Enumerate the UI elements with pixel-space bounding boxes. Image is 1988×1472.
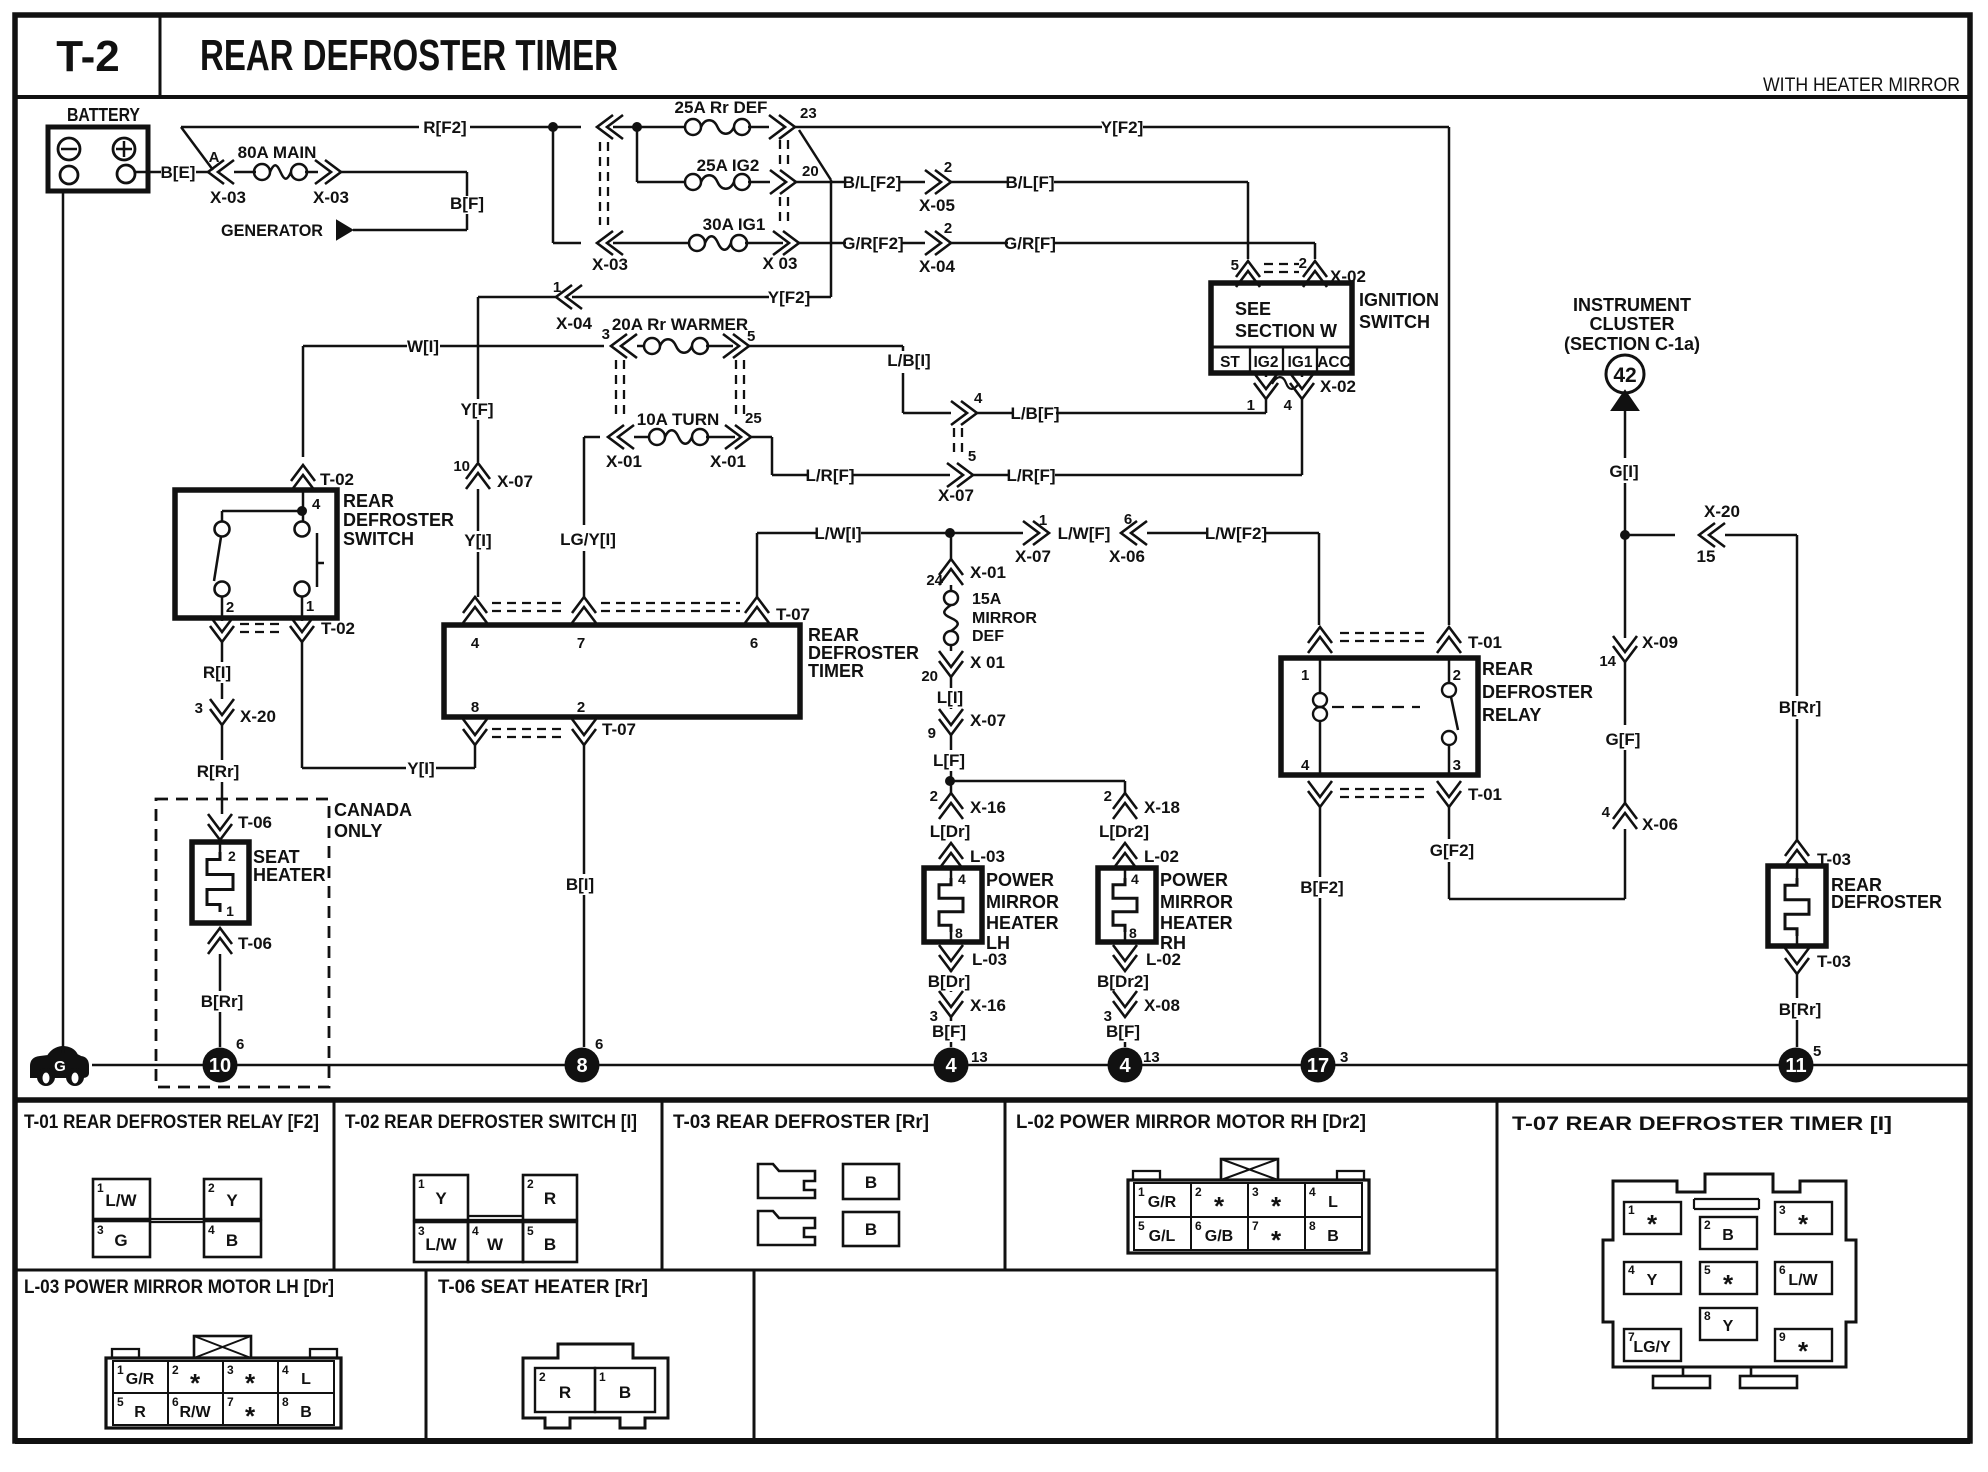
svg-text:B[Rr]: B[Rr] (201, 992, 244, 1011)
svg-text:Y: Y (435, 1189, 447, 1208)
svg-text:G[I]: G[I] (1609, 462, 1638, 481)
svg-text:G/R[F]: G/R[F] (1004, 234, 1056, 253)
svg-text:10A TURN: 10A TURN (637, 410, 720, 429)
svg-text:W[I]: W[I] (407, 337, 439, 356)
connector X 01 pin 20 (921, 645, 1005, 685)
svg-text:DEFROSTER: DEFROSTER (343, 510, 454, 530)
connector X-03 pin 20 (770, 163, 819, 226)
svg-text:X-01: X-01 (970, 563, 1006, 582)
node junction L[F] (945, 776, 955, 786)
svg-text:RELAY: RELAY (1482, 705, 1541, 725)
fuse 10A TURN with connectors X-01 (584, 410, 762, 471)
svg-text:L/W[I]: L/W[I] (814, 524, 861, 543)
svg-text:T-01 REAR DEFROSTER RELAY [F2]: T-01 REAR DEFROSTER RELAY [F2] (24, 1112, 319, 1133)
svg-text:LG/Y[I]: LG/Y[I] (560, 530, 616, 549)
svg-text:3: 3 (418, 1224, 425, 1238)
connector L-02 bottom (1113, 945, 1181, 971)
svg-text:8: 8 (282, 1395, 289, 1409)
connector X-08 pin 3 (1104, 991, 1180, 1025)
connector X-06 pin 4 (1602, 803, 1678, 899)
svg-text:2: 2 (527, 1177, 534, 1191)
svg-text:ST: ST (1220, 354, 1240, 371)
connector T-02 top (291, 465, 354, 491)
svg-text:B: B (619, 1383, 631, 1402)
wire from ignition pin 1 to L/B[F] (1056, 399, 1266, 413)
svg-text:2: 2 (1104, 788, 1112, 805)
table header T-06 (438, 1277, 648, 1298)
table header T-02 (345, 1112, 637, 1133)
svg-text:L[F]: L[F] (933, 751, 965, 770)
wire L[I] (937, 677, 963, 709)
connector X-07 pin 9 (928, 709, 1006, 742)
svg-text:G: G (54, 1058, 66, 1075)
connector X-20 pin 15 (1625, 502, 1797, 566)
instrument cluster label (1564, 295, 1700, 354)
svg-text:X-03: X-03 (592, 255, 628, 274)
connector X-04 pin 1 (553, 279, 593, 333)
connector X-20 pin 3 (195, 699, 276, 726)
svg-text:IGNITION: IGNITION (1359, 290, 1439, 310)
svg-text:*: * (1214, 1191, 1225, 1221)
svg-text:X-20: X-20 (1704, 502, 1740, 521)
svg-text:7: 7 (227, 1395, 234, 1409)
wire to B[F] and generator (341, 172, 484, 230)
svg-text:X-16: X-16 (970, 996, 1006, 1015)
svg-text:T-02: T-02 (320, 470, 354, 489)
svg-text:B: B (1327, 1228, 1339, 1245)
wire B[E] from battery (135, 163, 210, 182)
svg-text:B[Rr]: B[Rr] (1779, 1000, 1822, 1019)
svg-text:B: B (1722, 1227, 1734, 1244)
wire L/R[F] right (973, 466, 1056, 485)
connector X-05 pin 2 (919, 159, 955, 215)
svg-text:IG1: IG1 (1288, 354, 1313, 371)
wire G[I] (1609, 410, 1638, 535)
svg-text:B: B (865, 1220, 877, 1239)
title T-2 (56, 32, 120, 81)
svg-text:L-03 POWER MIRROR MOTOR LH [Dr: L-03 POWER MIRROR MOTOR LH [Dr] (24, 1277, 334, 1298)
svg-text:2: 2 (1299, 255, 1307, 272)
svg-text:2: 2 (930, 788, 938, 805)
connector X 03 right of IG1 fuse (763, 231, 799, 273)
svg-text:X-03: X-03 (210, 188, 246, 207)
svg-text:HEATER: HEATER (1160, 913, 1233, 933)
svg-text:2: 2 (1195, 1185, 1202, 1199)
svg-text:B[E]: B[E] (161, 163, 196, 182)
wire L/R[F] (751, 437, 950, 485)
svg-text:Y: Y (1723, 1318, 1734, 1335)
wire L/B[I] (749, 346, 951, 413)
svg-text:B[F]: B[F] (1106, 1022, 1140, 1041)
svg-text:10: 10 (453, 458, 470, 475)
wire Y[F] vertical (460, 297, 556, 462)
canada only dashed box (156, 799, 412, 1087)
svg-text:4: 4 (1131, 871, 1139, 887)
svg-text:Y[I]: Y[I] (464, 531, 491, 550)
wire Y[F2] top to relay (795, 118, 1449, 625)
svg-text:L: L (1328, 1194, 1338, 1211)
connector L-02 top (1113, 843, 1179, 869)
connector A X-03 (208, 149, 246, 207)
wire G/R feed from junction A (553, 127, 690, 243)
svg-text:5: 5 (1704, 1263, 1711, 1277)
svg-text:6: 6 (1195, 1219, 1202, 1233)
connector X-03 in-line (left column) (592, 115, 628, 274)
connector T-07 top pins 4 7 6 (463, 597, 810, 624)
svg-text:T-06: T-06 (238, 813, 272, 832)
svg-text:3: 3 (602, 326, 610, 343)
svg-text:G[F2]: G[F2] (1430, 841, 1474, 860)
svg-text:25A IG2: 25A IG2 (697, 156, 760, 175)
ground node 4 LH (934, 1048, 988, 1083)
svg-text:L/W[F2]: L/W[F2] (1205, 524, 1267, 543)
wire L/B[F] (977, 404, 1060, 423)
title REAR DEFROSTER TIMER (200, 31, 618, 80)
svg-text:2: 2 (172, 1363, 179, 1377)
wire R[F2] (181, 118, 551, 170)
wire battery negative to ground (62, 191, 65, 1053)
connector X-18 pin 2 (1104, 788, 1180, 819)
connector T-06 top (208, 813, 272, 840)
connector T-06 bottom (208, 928, 272, 954)
svg-text:4: 4 (208, 1223, 215, 1237)
svg-text:*: * (190, 1368, 201, 1398)
connector T-01 bottom pins 4 3 (1308, 781, 1502, 807)
svg-text:7: 7 (577, 635, 585, 652)
ground node 10 (203, 1036, 245, 1083)
svg-text:L/R[F]: L/R[F] (1006, 466, 1055, 485)
svg-text:X-07: X-07 (938, 486, 974, 505)
wire R[I] (203, 642, 231, 699)
svg-text:REAR: REAR (808, 625, 859, 645)
svg-text:BATTERY: BATTERY (67, 105, 140, 125)
wire B[F] RH to ground (1106, 1022, 1140, 1047)
wire L/W[I] (757, 524, 948, 597)
svg-text:6: 6 (1779, 1263, 1786, 1277)
svg-text:T-07: T-07 (602, 720, 636, 739)
svg-text:B[F]: B[F] (450, 194, 484, 213)
svg-text:1: 1 (599, 1370, 606, 1384)
svg-text:HEATER: HEATER (253, 865, 326, 885)
svg-text:L/W: L/W (1788, 1272, 1818, 1289)
connector X-02 pins 5 and 2 (1231, 255, 1366, 287)
svg-text:L[I]: L[I] (937, 688, 963, 707)
battery (48, 105, 148, 191)
svg-text:POWER: POWER (986, 870, 1054, 890)
connector view T-02 terminals (414, 1175, 577, 1262)
svg-text:2: 2 (944, 159, 952, 176)
svg-text:1: 1 (553, 279, 561, 296)
connector X-06 pin 6 (1109, 511, 1147, 566)
svg-text:Y: Y (226, 1191, 238, 1210)
svg-text:G/L: G/L (1149, 1228, 1176, 1245)
svg-text:WITH HEATER MIRROR: WITH HEATER MIRROR (1763, 75, 1960, 96)
generator arrow (221, 221, 352, 240)
node junction R[F2] B (632, 122, 642, 132)
svg-text:T-06: T-06 (238, 934, 272, 953)
svg-text:IG2: IG2 (1254, 354, 1279, 371)
fuse 15A MIRROR DEF (944, 585, 1037, 645)
wire L[Dr2] (1099, 822, 1149, 841)
wire LG/Y[I] vertical (560, 437, 616, 597)
svg-text:20: 20 (921, 668, 938, 685)
svg-text:B: B (300, 1404, 312, 1421)
wire B[Dr] (928, 971, 971, 992)
svg-text:L/R[F]: L/R[F] (805, 466, 854, 485)
ground node 17 (1301, 1048, 1349, 1083)
wire B[F2] to ground (1300, 807, 1343, 1047)
fuse 80A MAIN (234, 143, 318, 180)
connector T-03 top (1785, 840, 1851, 869)
svg-text:8: 8 (576, 1055, 587, 1077)
wire G[F] (1606, 662, 1641, 803)
svg-text:POWER: POWER (1160, 870, 1228, 890)
svg-text:B/L[F]: B/L[F] (1005, 173, 1054, 192)
connector T-01 top pins 1 2 (1308, 627, 1502, 653)
svg-text:2: 2 (1704, 1218, 1711, 1232)
svg-text:G[F]: G[F] (1606, 730, 1641, 749)
rear defroster relay K1 (1281, 658, 1593, 775)
svg-text:1: 1 (1301, 667, 1309, 684)
ground node 11 (1779, 1043, 1822, 1083)
svg-text:24: 24 (926, 572, 943, 589)
svg-text:L/W: L/W (425, 1235, 457, 1254)
svg-text:L/W: L/W (105, 1191, 137, 1210)
svg-text:TIMER: TIMER (808, 661, 864, 681)
svg-text:SECTION W: SECTION W (1235, 321, 1337, 341)
svg-text:5: 5 (527, 1224, 534, 1238)
svg-text:8: 8 (471, 699, 479, 716)
ground symbol G car (31, 1047, 88, 1085)
svg-text:5: 5 (1813, 1043, 1821, 1060)
svg-text:SWITCH: SWITCH (343, 529, 414, 549)
svg-text:4: 4 (958, 871, 966, 887)
fuse 30A IG1 (689, 215, 783, 251)
connector X-16 pin 3 (930, 991, 1006, 1025)
svg-text:*: * (1647, 1209, 1658, 1239)
connector X-07 pin 5 (938, 448, 976, 505)
svg-text:DEFROSTER: DEFROSTER (1482, 682, 1593, 702)
svg-text:X-02: X-02 (1320, 377, 1356, 396)
seat heater R-SH (192, 840, 326, 923)
svg-text:CANADA: CANADA (334, 800, 412, 820)
svg-text:T-01: T-01 (1468, 785, 1502, 804)
svg-text:6: 6 (172, 1395, 179, 1409)
svg-text:X-16: X-16 (970, 798, 1006, 817)
node junction G[I] (1620, 530, 1630, 540)
svg-text:6: 6 (1124, 511, 1132, 528)
connector view T-06 terminals (523, 1344, 668, 1428)
svg-text:15A: 15A (972, 591, 1002, 608)
node junction L/W (945, 528, 955, 538)
svg-text:4: 4 (974, 390, 983, 407)
svg-text:X-06: X-06 (1109, 547, 1145, 566)
svg-text:B[Dr2]: B[Dr2] (1097, 972, 1149, 991)
svg-text:2: 2 (208, 1181, 215, 1195)
wire L/W[F2] to relay (1147, 524, 1319, 625)
svg-text:B[I]: B[I] (566, 875, 594, 894)
svg-text:X-01: X-01 (606, 452, 642, 471)
connector X-07 pin 1 (950, 512, 1051, 566)
svg-text:T-02: T-02 (321, 619, 355, 638)
connector T-02 bottom pins 2 and 1 (210, 616, 355, 642)
svg-text:CLUSTER: CLUSTER (1590, 314, 1675, 334)
svg-text:L-03: L-03 (972, 950, 1007, 969)
svg-text:HEATER: HEATER (986, 913, 1059, 933)
svg-text:5: 5 (747, 328, 755, 345)
svg-text:1: 1 (1039, 512, 1047, 529)
svg-text:4: 4 (312, 496, 321, 513)
svg-text:B[F]: B[F] (932, 1022, 966, 1041)
svg-text:3: 3 (195, 700, 203, 717)
svg-text:*: * (1798, 1336, 1809, 1366)
svg-text:X 03: X 03 (763, 254, 798, 273)
svg-text:4: 4 (471, 635, 480, 652)
svg-text:20A Rr WARMER: 20A Rr WARMER (612, 315, 748, 334)
svg-text:17: 17 (1307, 1055, 1329, 1077)
wire B[Rr] seat heater to ground (201, 954, 244, 1047)
connector view T-07 terminals (1603, 1174, 1856, 1388)
svg-text:4: 4 (945, 1055, 957, 1077)
svg-text:1: 1 (117, 1363, 124, 1377)
svg-text:4: 4 (1301, 757, 1310, 774)
svg-text:DEF: DEF (972, 628, 1004, 645)
svg-text:*: * (245, 1401, 256, 1431)
svg-text:Y: Y (1647, 1272, 1658, 1289)
wire branch to RH mirror (950, 781, 1125, 793)
svg-text:25A Rr DEF: 25A Rr DEF (675, 98, 768, 117)
connector X-16 pin 2 (930, 781, 1006, 819)
svg-text:1: 1 (306, 598, 314, 615)
svg-text:L-02: L-02 (1144, 847, 1179, 866)
wire G/R[F2] (799, 234, 925, 253)
svg-text:25: 25 (745, 410, 762, 427)
svg-text:ACC: ACC (1317, 354, 1351, 371)
svg-text:2: 2 (228, 848, 236, 864)
svg-text:X-04: X-04 (919, 257, 955, 276)
svg-text:6: 6 (595, 1036, 603, 1053)
svg-text:3: 3 (1453, 757, 1461, 774)
svg-text:T-03 REAR DEFROSTER [Rr]: T-03 REAR DEFROSTER [Rr] (673, 1112, 929, 1133)
table header L-02 (1016, 1112, 1366, 1133)
svg-text:R[F2]: R[F2] (423, 118, 466, 137)
svg-text:1: 1 (1138, 1185, 1145, 1199)
svg-text:4: 4 (1628, 1263, 1635, 1277)
fuse 25A IG2 (685, 156, 770, 190)
svg-text:*: * (1798, 1209, 1809, 1239)
svg-text:B: B (865, 1173, 877, 1192)
svg-text:2: 2 (944, 220, 952, 237)
wire Y[I] (464, 489, 491, 597)
svg-text:5: 5 (968, 448, 976, 465)
svg-text:Y[F2]: Y[F2] (768, 288, 811, 307)
svg-text:1: 1 (226, 903, 234, 919)
wire G[F2] (1430, 807, 1625, 899)
connector X-01 pin 24 (926, 533, 1006, 589)
svg-text:T-02 REAR DEFROSTER SWITCH [I]: T-02 REAR DEFROSTER SWITCH [I] (345, 1112, 637, 1133)
svg-text:2: 2 (1453, 667, 1461, 684)
connector view T-03 terminals (758, 1164, 899, 1246)
wire L/W[F] (1058, 524, 1111, 543)
svg-text:8: 8 (1129, 925, 1137, 941)
svg-text:X-03: X-03 (313, 188, 349, 207)
wire B/L[F] to ignition (951, 173, 1248, 259)
svg-text:42: 42 (1613, 364, 1636, 387)
svg-text:Y[F]: Y[F] (460, 400, 493, 419)
svg-text:3: 3 (97, 1223, 104, 1237)
table header T-03 (673, 1112, 929, 1133)
connector view L-02 terminals (1128, 1159, 1369, 1255)
ground node 4 RH (1108, 1048, 1160, 1083)
svg-text:X-04: X-04 (556, 314, 592, 333)
wire B[Rr] to rear defroster (1779, 535, 1822, 840)
svg-text:8: 8 (1309, 1219, 1316, 1233)
svg-text:R[I]: R[I] (203, 663, 231, 682)
connector X-04 pin 2 (919, 220, 955, 276)
svg-text:14: 14 (1599, 653, 1616, 670)
instrument cluster node 42 (1606, 355, 1644, 410)
svg-text:L-03: L-03 (970, 847, 1005, 866)
svg-text:2: 2 (539, 1370, 546, 1384)
svg-text:B: B (226, 1231, 238, 1250)
svg-text:REAR: REAR (1482, 659, 1533, 679)
connector view L-03 terminals (106, 1336, 341, 1431)
svg-text:1: 1 (1628, 1203, 1635, 1217)
connector table grid (15, 1100, 1970, 1441)
connector T-03 bottom (1785, 948, 1851, 974)
svg-text:1: 1 (97, 1181, 104, 1195)
connector L-03 bottom (939, 945, 1007, 971)
table header T-07 (1512, 1114, 1892, 1135)
wire B[Dr2] (1097, 972, 1149, 991)
wire B/L[F2] (796, 173, 925, 192)
svg-text:T-07: T-07 (776, 605, 810, 624)
svg-text:G/R[F2]: G/R[F2] (842, 234, 903, 253)
svg-text:T-03: T-03 (1817, 952, 1851, 971)
svg-text:SEE: SEE (1235, 299, 1271, 319)
wire B[Rr] rear defroster to ground (1779, 974, 1822, 1047)
ignition switch U1 (1211, 283, 1439, 373)
svg-text:11: 11 (1785, 1055, 1806, 1077)
svg-text:5: 5 (117, 1395, 124, 1409)
ground bus wire (92, 1064, 1970, 1067)
svg-text:T-01: T-01 (1468, 633, 1502, 652)
wire B[I] timer pin 2 to ground (566, 745, 594, 1047)
svg-text:*: * (1723, 1269, 1734, 1299)
wire Y[I] from switch to timer pin 8 (302, 642, 475, 778)
svg-text:10: 10 (209, 1055, 231, 1077)
rear defroster switch S1 (175, 490, 454, 618)
svg-text:GENERATOR: GENERATOR (221, 221, 323, 240)
svg-text:X-20: X-20 (240, 707, 276, 726)
svg-text:13: 13 (971, 1049, 988, 1066)
svg-text:4: 4 (1284, 397, 1293, 414)
svg-text:B[Rr]: B[Rr] (1779, 698, 1822, 717)
svg-text:7: 7 (1252, 1219, 1259, 1233)
svg-text:MIRROR: MIRROR (972, 610, 1037, 627)
svg-text:13: 13 (1143, 1049, 1160, 1066)
svg-text:20: 20 (802, 163, 819, 180)
svg-text:X-05: X-05 (919, 196, 955, 215)
svg-text:3: 3 (227, 1363, 234, 1377)
connector T-07 bottom pins 8 2 (463, 719, 636, 745)
svg-text:15: 15 (1697, 547, 1716, 566)
svg-text:4: 4 (282, 1363, 289, 1377)
wire L[Dr] (930, 822, 971, 841)
svg-text:MIRROR: MIRROR (1160, 892, 1233, 912)
svg-text:6: 6 (236, 1036, 244, 1053)
connector pin 4 (951, 390, 983, 456)
